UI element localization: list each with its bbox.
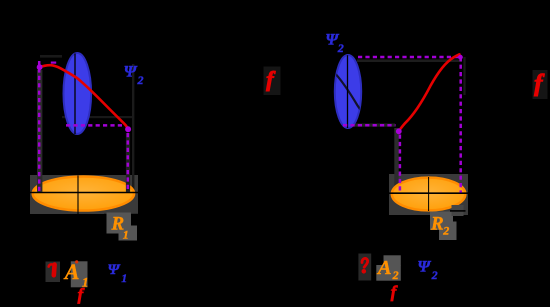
svg-text:2: 2	[431, 268, 438, 282]
black ground line through left orange ellipse	[27, 192, 141, 194]
dashed purple wall left box left side	[38, 61, 41, 192]
faint trace of black wall, right structure left side	[394, 128, 398, 191]
dashed purple level line left box	[66, 124, 125, 127]
red speck atop A1	[75, 260, 78, 263]
red wavefunction curve left	[40, 65, 129, 129]
svg-text:2: 2	[137, 73, 144, 87]
svg-text:1: 1	[121, 271, 127, 285]
black axis through right blue ellipse	[347, 55, 349, 128]
faint trace of black wall behind left box left side	[37, 70, 42, 192]
faint trace of black wall, right structure top right	[357, 59, 462, 62]
nucleus ellipse right (orange)	[392, 178, 466, 211]
gray box of label A1	[71, 261, 88, 287]
black vertical axis through left orange ellipse	[77, 176, 79, 215]
black axis through left blue ellipse	[74, 54, 76, 135]
dashed purple top line right box	[358, 56, 461, 59]
black x-axis segment over R1 label box	[104, 214, 141, 216]
svg-text:2: 2	[337, 41, 344, 55]
svg-text:Ψ: Ψ	[417, 258, 431, 275]
red glyph (question-hook) right equation	[362, 258, 368, 267]
black vertical axis through right orange ellipse	[428, 177, 430, 211]
faint trace of black level line, left	[62, 116, 134, 118]
svg-text:1: 1	[123, 228, 129, 242]
svg-text:A: A	[376, 257, 392, 279]
svg-text:Ψ: Ψ	[124, 64, 138, 81]
purple node corner right top	[458, 55, 463, 60]
gray box of label R2	[430, 212, 453, 231]
faint haze behind right edge f	[533, 70, 548, 99]
electron cloud ellipse right (blue)	[335, 55, 361, 128]
svg-text:R: R	[430, 213, 444, 234]
svg-text:2: 2	[392, 268, 399, 282]
gray box of label R1	[107, 213, 132, 234]
svg-text:2: 2	[442, 223, 449, 237]
gray halo behind right nucleus ellipse	[389, 174, 468, 215]
svg-text:Ψ: Ψ	[108, 262, 121, 278]
red wavefunction curve right	[399, 54, 460, 131]
nucleus ellipse left (orange)	[33, 177, 134, 211]
gray box behind red r left	[46, 262, 61, 283]
faint trace of black box wall, left top	[40, 55, 62, 58]
dashed purple wall right box right side	[459, 57, 462, 192]
black ground line through right orange ellipse	[387, 192, 470, 194]
dashed purple wall right box left side	[399, 135, 402, 193]
purple node dot left bottom	[125, 126, 131, 132]
purple node dot right	[396, 128, 402, 134]
dashed purple level line right box	[343, 124, 396, 127]
gray box behind red glyph right equation	[358, 254, 371, 281]
gray box of label A2	[376, 265, 401, 281]
purple node dot left top	[37, 64, 43, 70]
svg-text:A: A	[63, 259, 80, 284]
faint trace band left box right wall	[126, 133, 130, 192]
red glyph r left equation	[49, 264, 52, 266]
gray halo behind left nucleus ellipse	[30, 175, 138, 214]
black x-axis segment over R2 patch	[450, 210, 466, 212]
faint haze behind center f	[264, 67, 281, 96]
dashed purple wall left box right side	[127, 133, 130, 192]
electron cloud ellipse left (blue)	[64, 53, 92, 134]
faint trace of black wall, left right side	[132, 64, 134, 192]
